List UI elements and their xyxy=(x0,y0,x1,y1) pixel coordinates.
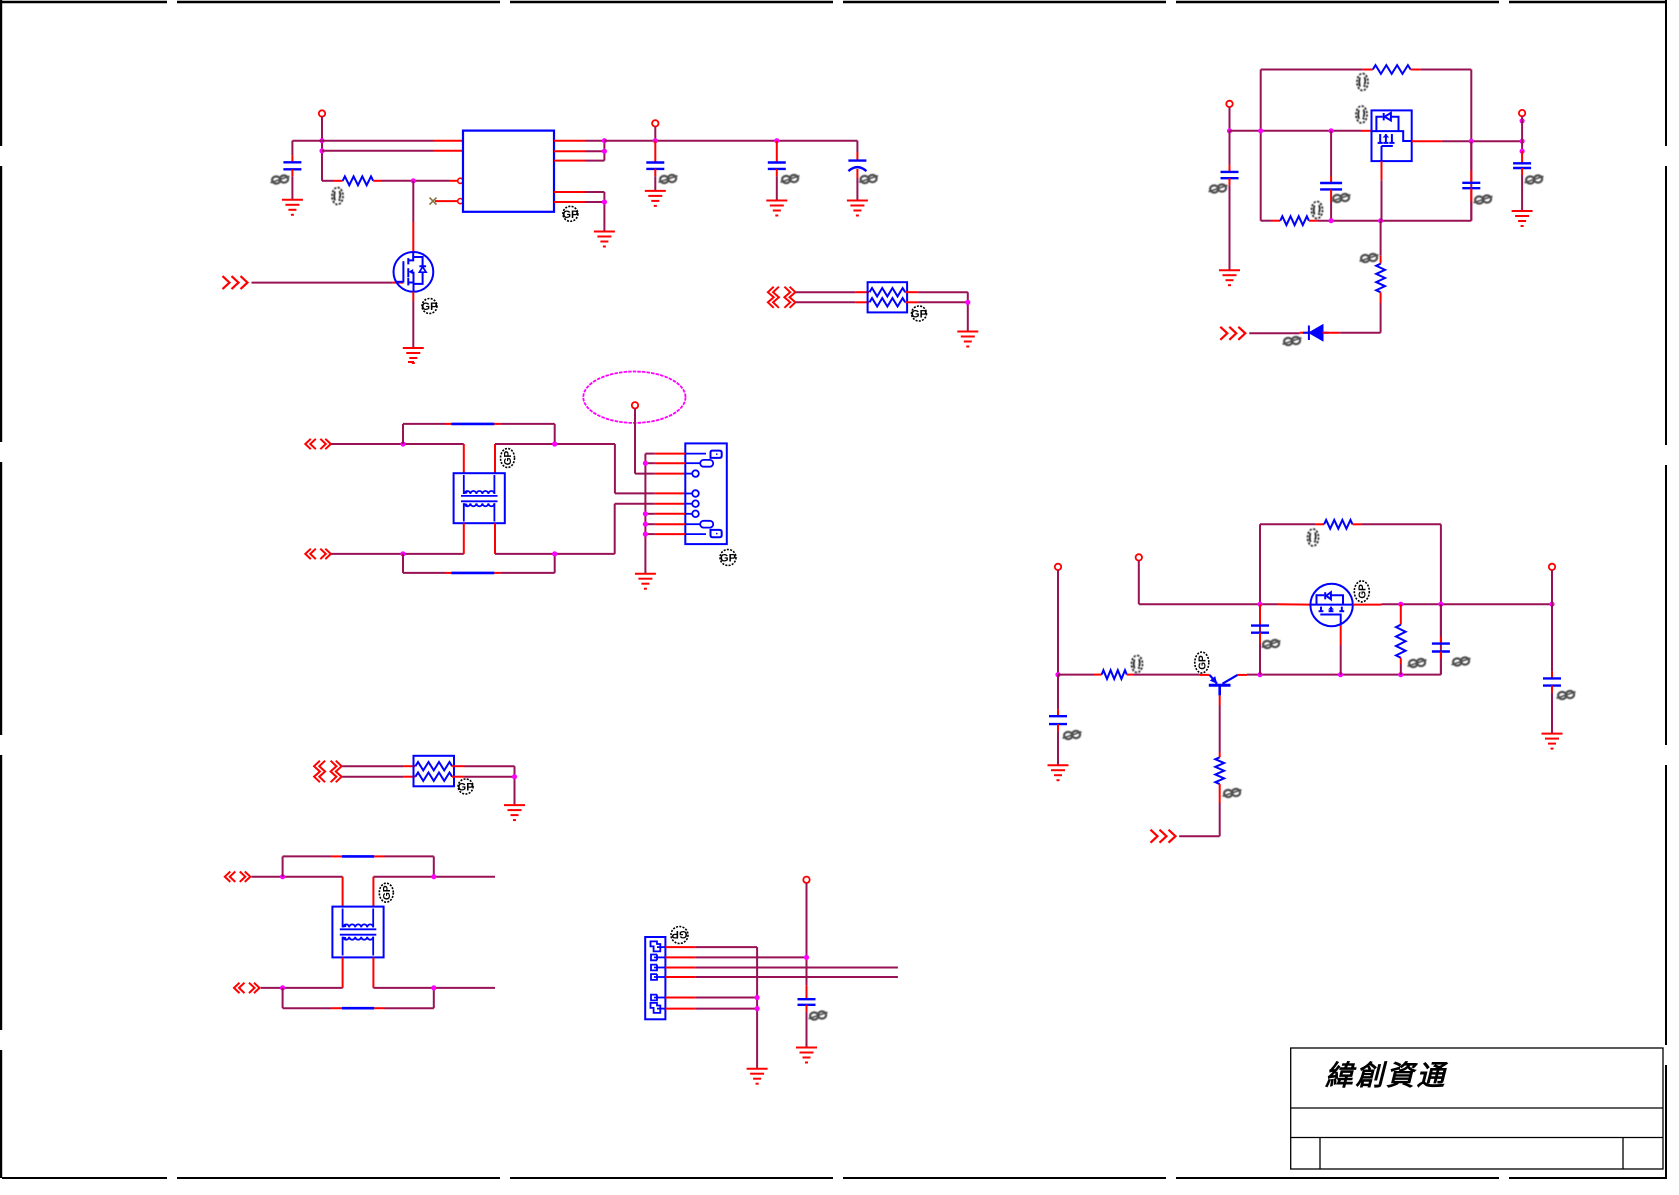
off-page pair «» upper xyxy=(305,439,331,449)
R5 left lead xyxy=(1094,674,1102,676)
junction lower bypass right xyxy=(552,551,557,556)
U1 pin lead xyxy=(554,160,585,162)
C5b top lead xyxy=(1330,176,1332,183)
capacitor C10 xyxy=(1543,678,1561,685)
wire to RN1 top xyxy=(796,291,856,293)
wire C7 to ground xyxy=(1521,175,1523,211)
F2 right lead xyxy=(494,572,500,574)
wire C2 to ground xyxy=(654,176,656,191)
U2 refdes smudge xyxy=(1356,106,1367,123)
connector J1 xyxy=(685,443,727,544)
F1 left lead xyxy=(445,423,451,425)
Q2 base lead xyxy=(1200,674,1210,676)
R6 refdes smudge xyxy=(1223,789,1242,797)
R7 right lead xyxy=(1353,523,1362,525)
Q3 source lead xyxy=(1340,626,1342,645)
power port P4 xyxy=(1519,110,1525,116)
ground bus vertical xyxy=(644,454,646,574)
wire to off-page xyxy=(1179,835,1220,837)
wire C12 to ground xyxy=(806,1012,808,1048)
J2 pin 3 lead xyxy=(665,967,695,969)
J1 pin 4 lead xyxy=(655,492,686,494)
ground below C2 xyxy=(645,191,666,206)
R1 left lead xyxy=(333,180,343,182)
wire port down to J1 pin 3 xyxy=(634,409,636,474)
transformer T2 xyxy=(332,907,383,958)
fuse F1 xyxy=(451,423,494,426)
R4 refdes smudge xyxy=(1360,254,1379,262)
wire J2 pin4 dangling xyxy=(696,976,898,978)
T2 windings xyxy=(340,909,377,956)
J2 pin 1 lead xyxy=(665,946,695,948)
T1 pin 1 lead xyxy=(463,444,465,473)
C6 top lead xyxy=(1470,171,1472,183)
U1 pin 4 lead with bubble xyxy=(435,200,458,202)
U2 internal body diode xyxy=(1372,113,1399,131)
R6 top lead xyxy=(1219,753,1221,758)
ground below C7 xyxy=(1512,211,1533,226)
Q1 drain lead xyxy=(412,222,414,253)
J1 pin 7 lead xyxy=(655,523,686,525)
C10 bottom lead xyxy=(1551,686,1553,693)
wire D1 to R4 xyxy=(1340,332,1380,334)
resistor pack RN1 xyxy=(868,282,908,312)
J2 contacts xyxy=(651,941,666,1013)
lower bypass riser left xyxy=(282,988,284,1008)
junction to C5b xyxy=(1329,128,1334,133)
wire U2 source to bottom rail xyxy=(1381,180,1383,220)
off-page input >>> H xyxy=(1151,830,1176,843)
C11 bottom lead xyxy=(1057,724,1059,731)
wire R5 to Q2 base xyxy=(1134,674,1200,676)
off-page dual connector to RN1 xyxy=(768,287,796,308)
wire down to J1 pin4 level xyxy=(614,444,616,493)
capacitor C3 xyxy=(768,163,786,169)
C2 top lead xyxy=(654,141,656,163)
fuse F3 xyxy=(342,855,374,858)
RN2 left leads xyxy=(403,765,415,767)
off-page pair «» F lower xyxy=(234,983,260,993)
R3 right lead xyxy=(1309,220,1318,222)
RN1 left leads xyxy=(856,291,869,293)
wire down to C1 xyxy=(291,141,293,155)
junction output net xyxy=(602,138,607,143)
wire P7 down to C10 xyxy=(1551,570,1553,671)
junction on second rail xyxy=(319,148,324,153)
T2 pin 1 lead xyxy=(342,877,344,907)
ground below C1 xyxy=(282,200,303,215)
bypass riser right xyxy=(554,424,556,444)
D1 cathode lead xyxy=(1300,332,1309,334)
junction C8 bottom xyxy=(1257,672,1262,677)
C12 top lead xyxy=(806,985,808,999)
wire to U1 pin 2 xyxy=(322,150,433,152)
wire J1 pin6 to bus xyxy=(645,513,654,515)
wire down to C6 xyxy=(1470,141,1472,171)
junction to C7 xyxy=(1520,149,1525,154)
R6 bottom lead xyxy=(1219,784,1221,803)
ground below U1 xyxy=(594,232,615,247)
right loop vertical xyxy=(1470,70,1472,221)
MOSFET Q3 xyxy=(1310,584,1352,626)
wire C6 down to bottom rail xyxy=(1470,202,1472,221)
lower wire to T2 pin 3 xyxy=(261,987,343,989)
upper wire right dangling xyxy=(373,876,495,878)
T1 pin 4 lead xyxy=(494,523,496,554)
capacitor C8 xyxy=(1251,626,1269,633)
R8 bottom lead xyxy=(1400,658,1402,664)
junction bus pin7 xyxy=(643,522,648,527)
C5b bottom lead xyxy=(1330,189,1332,202)
wire J2 pin3 dangling xyxy=(696,967,898,969)
sheet border left edge xyxy=(0,0,2,1178)
GP stamp near RN2 xyxy=(458,779,474,794)
resistor R7 xyxy=(1324,520,1352,529)
C7 bottom lead xyxy=(1521,168,1523,175)
C5 refdes smudge xyxy=(1209,184,1228,192)
upper wire to T2 pin 1 xyxy=(252,876,343,878)
lower wire to T1 pin 3 xyxy=(331,553,464,555)
junction bus pin8 xyxy=(643,532,648,537)
wire C10 to ground xyxy=(1551,693,1553,734)
wire RN2 top to corner xyxy=(465,765,515,767)
F4 left lead xyxy=(332,1007,342,1009)
wire C5 to ground xyxy=(1229,185,1231,270)
wire down to R4 xyxy=(1380,221,1382,256)
U1 gnd pin 2 lead xyxy=(554,201,585,203)
wire RN1 bottom to junction xyxy=(918,301,968,303)
GP stamp near J1 xyxy=(720,550,736,566)
GP stamp near Q1 xyxy=(422,299,438,314)
junction under P4 xyxy=(1520,118,1525,123)
MOSFET Q1 xyxy=(394,252,434,292)
wire down to Q1 xyxy=(412,181,414,222)
C6 refdes smudge xyxy=(1474,195,1493,203)
wire from P1 down xyxy=(321,117,323,181)
power port P5 xyxy=(1055,564,1061,570)
wire P4 down xyxy=(1521,116,1523,151)
C5 top lead xyxy=(1229,165,1231,172)
junction P3 net xyxy=(1227,128,1232,133)
U1 pin 2 lead xyxy=(433,150,463,152)
capacitor C5 xyxy=(1221,172,1239,178)
F2 left lead xyxy=(445,572,451,574)
bottom rail right xyxy=(1318,220,1471,222)
diode D1 xyxy=(1303,326,1329,341)
C4 top lead xyxy=(856,152,858,161)
wire down to C9 xyxy=(1440,604,1442,636)
junction R8 top xyxy=(1398,602,1403,607)
power port P7 xyxy=(1549,564,1555,570)
power port P2 xyxy=(652,120,658,126)
rotated GP stamp near Q3 xyxy=(1354,581,1369,602)
svg-text:GP: GP xyxy=(422,301,438,313)
wire J1 pin1 to bus xyxy=(645,453,654,455)
C10 top lead xyxy=(1551,671,1553,678)
U2 input lead xyxy=(1361,130,1372,132)
lower wire right dangling xyxy=(373,987,495,989)
R3 refdes smudge xyxy=(1312,202,1323,219)
wire to D1 anode xyxy=(1249,332,1300,334)
C8 refdes smudge xyxy=(1262,640,1281,648)
wire P2 to output rail xyxy=(654,127,656,141)
R2 left lead xyxy=(1363,69,1373,71)
wire P3 down xyxy=(1229,107,1231,131)
C3 top lead xyxy=(776,141,778,163)
resistor R2 xyxy=(1373,65,1411,74)
C1 top lead xyxy=(291,155,293,162)
T1 pin 2 lead xyxy=(494,444,496,473)
wire to J1 pin 4 xyxy=(615,492,655,494)
regulator IC U1 xyxy=(463,131,554,212)
junction C9 top xyxy=(1438,602,1443,607)
bypass rail left segment xyxy=(403,423,445,425)
wire J2 pin5 xyxy=(696,997,758,999)
svg-text:GP: GP xyxy=(672,928,688,940)
upper bypass riser left xyxy=(282,856,284,876)
wire to RN2 top xyxy=(342,765,403,767)
wire R8 down xyxy=(1400,664,1402,675)
Q2 emitter lead xyxy=(1238,674,1248,676)
GP stamp near J2 (rotated) xyxy=(671,927,688,944)
U2 output lead xyxy=(1412,140,1442,142)
lower bypass rail right xyxy=(501,572,555,574)
wire R6 down to corner xyxy=(1219,803,1221,836)
off-page dual connector to RN2 xyxy=(314,761,342,783)
C2 refdes smudge xyxy=(659,175,678,183)
sheet border bottom edge xyxy=(2,1177,1667,1179)
D1 anode lead xyxy=(1323,332,1341,334)
wire down to C5 xyxy=(1229,131,1231,165)
R2 right lead xyxy=(1411,69,1421,71)
junction sense net xyxy=(602,149,607,154)
wire J1 pin8 to bus xyxy=(645,533,654,535)
junction U2 source / R4 xyxy=(1378,218,1383,223)
wire J2 pin2 to port net xyxy=(696,956,807,958)
junction to lower bypass xyxy=(400,551,405,556)
wire P6 to Q3 gate xyxy=(1139,603,1277,605)
T1 primary winding xyxy=(461,475,498,522)
U2 internal MOSFET symbol xyxy=(1376,131,1411,161)
C1 bottom lead xyxy=(291,169,293,176)
J1 pin 5 lead xyxy=(655,503,686,505)
ground below J1 bus xyxy=(635,574,656,589)
C11 refdes smudge xyxy=(1063,731,1082,739)
wire R4 to D1 xyxy=(1380,303,1382,333)
R2 refdes smudge xyxy=(1357,74,1368,91)
junction lower bypass right xyxy=(431,985,436,990)
fuse F4 xyxy=(342,1007,374,1010)
R1 right lead xyxy=(373,180,381,182)
resistor R1 xyxy=(343,176,374,185)
R4 top lead xyxy=(1380,256,1382,264)
off-page pair «» lower xyxy=(305,549,331,559)
wire down to C5b xyxy=(1330,131,1332,176)
ground below RN2 xyxy=(504,805,525,820)
capacitor C1 xyxy=(283,162,301,169)
junction output / C6 xyxy=(1469,139,1474,144)
lower bypass riser right xyxy=(554,554,556,573)
wire to J1 pin 3 xyxy=(635,473,655,475)
wire C11 to ground xyxy=(1057,731,1059,765)
capacitor C6 xyxy=(1462,183,1480,188)
C6 bottom lead xyxy=(1470,188,1472,201)
junction to upper bypass xyxy=(280,874,285,879)
C9 bottom lead xyxy=(1440,652,1442,659)
T2 pin 3 lead xyxy=(342,957,344,988)
svg-text:GP: GP xyxy=(458,782,474,794)
wire C3 to ground xyxy=(776,176,778,200)
wire C8 down xyxy=(1259,644,1261,675)
ground below C12 xyxy=(796,1048,817,1063)
C9 top lead xyxy=(1440,637,1442,644)
rotated GP stamp near T1 xyxy=(501,449,515,468)
U1 output pin lead xyxy=(554,140,585,142)
bypass rail right segment xyxy=(501,423,555,425)
wire Q3 drain right xyxy=(1382,603,1553,605)
svg-text:GP: GP xyxy=(382,885,393,900)
wire to RN2 bottom xyxy=(342,776,403,778)
wire P6 down xyxy=(1138,561,1140,605)
U1 pin 1 lead xyxy=(433,140,463,142)
RN2 element 1 xyxy=(415,762,452,770)
C3 bottom lead xyxy=(776,169,778,176)
junction to bypass rail xyxy=(400,441,405,446)
connector J2 xyxy=(645,937,665,1019)
Q1 source lead xyxy=(412,292,414,301)
wire Q3 source down xyxy=(1340,645,1342,675)
wire down to C11 xyxy=(1057,675,1059,710)
D1 refdes smudge xyxy=(1283,337,1302,345)
Q3 gate lead xyxy=(1277,603,1311,605)
port inside ellipse xyxy=(632,402,638,408)
off-page pair «» F upper xyxy=(225,872,251,882)
capacitor C2 xyxy=(646,163,664,169)
ground bus vertical J2 xyxy=(756,947,758,1069)
wire to R5 xyxy=(1058,674,1094,676)
U1 sense pin lead xyxy=(554,150,585,152)
upper bypass rail right xyxy=(385,855,434,857)
load switch MOSFET U2 xyxy=(1372,110,1412,161)
junction P5 net xyxy=(1055,672,1060,677)
svg-text:GP: GP xyxy=(1197,655,1208,670)
R1 refdes smudge xyxy=(332,188,343,205)
wire RN2 bottom to junction xyxy=(465,776,515,778)
J1 pin 2 lead xyxy=(655,462,686,464)
T2 pin 4 lead xyxy=(372,957,374,988)
T1 pin 3 lead xyxy=(463,523,465,554)
junction to feedback rail xyxy=(1258,128,1263,133)
wire Q1 source to ground xyxy=(412,301,414,348)
U1 gnd pin lead xyxy=(554,191,585,193)
J2 pin 5 lead xyxy=(665,997,695,999)
GP stamp near U1 xyxy=(562,206,578,221)
wire R1 to U1 pin 3 xyxy=(381,180,450,182)
C12 bottom lead xyxy=(806,1005,808,1012)
wire pin up to output net xyxy=(585,160,604,162)
junction output / P4 xyxy=(1520,139,1525,144)
top rail left H xyxy=(1260,523,1315,525)
svg-text:GP: GP xyxy=(720,553,736,565)
U2 source lead xyxy=(1381,161,1383,180)
ground below Q1 xyxy=(403,348,424,363)
rotated GP stamp near Q2 xyxy=(1195,652,1209,673)
junction bus pin5 xyxy=(755,995,760,1000)
ground below J2 bus xyxy=(747,1069,768,1084)
wire U2 output right xyxy=(1442,140,1522,142)
junction at C3 xyxy=(774,138,779,143)
capacitor C9 xyxy=(1432,644,1450,652)
stray red tick xyxy=(408,361,414,363)
J1 pin 3 lead xyxy=(655,473,686,475)
RN1 element 2 xyxy=(870,298,906,306)
C9 refdes smudge xyxy=(1452,657,1471,665)
resistor R8 xyxy=(1396,625,1406,658)
ground below RN1 xyxy=(957,332,978,347)
RN1 right leads xyxy=(905,291,918,293)
sheet border top edge xyxy=(0,1,1667,3)
C8 bottom lead xyxy=(1259,633,1261,644)
J1 pin 8 lead xyxy=(655,533,686,535)
lower bypass riser right xyxy=(433,988,435,1008)
wire P5 down xyxy=(1057,570,1059,675)
bypass riser left xyxy=(402,424,404,444)
junction bus pin6 xyxy=(643,511,648,516)
wire to J1 pin 5 xyxy=(615,503,655,505)
C1 refdes smudge xyxy=(271,175,290,183)
R7 refdes smudge xyxy=(1308,529,1319,546)
junction C8 top xyxy=(1257,602,1262,607)
ground below C4 xyxy=(847,201,868,216)
polarized capacitor C4 xyxy=(848,161,866,172)
sheet border right edge xyxy=(1665,0,1667,1178)
svg-text:GP: GP xyxy=(503,450,514,465)
resistor R4 xyxy=(1376,264,1385,293)
wire C1 to ground xyxy=(291,176,293,200)
wire J2 pin6 xyxy=(696,1008,758,1010)
right loop vertical H xyxy=(1440,524,1442,674)
C11 top lead xyxy=(1057,709,1059,716)
C5 bottom lead xyxy=(1229,178,1231,185)
wire J2 pin1 xyxy=(696,946,758,948)
wire down to ground xyxy=(514,766,516,805)
off-page input >>> to Q1 gate xyxy=(223,276,248,289)
wire J1 pin2 to bus xyxy=(645,462,654,464)
ground below C11 xyxy=(1048,765,1069,780)
RN2 element 2 xyxy=(415,773,452,781)
power port P8 xyxy=(803,877,809,883)
C12 refdes smudge xyxy=(809,1011,828,1019)
feedback rail right xyxy=(1421,69,1472,71)
wire C9 down xyxy=(1440,659,1442,675)
lower wire to J1 pin 5 xyxy=(495,553,615,555)
wire U1 ground pins down xyxy=(603,192,605,232)
wire C5b to bottom rail xyxy=(1330,202,1332,221)
fuse F2 xyxy=(451,572,494,575)
C4 refdes smudge xyxy=(859,175,878,183)
power port P3 xyxy=(1226,101,1232,107)
capacitor C11 xyxy=(1049,716,1067,724)
feedback rail left xyxy=(1261,69,1363,71)
C5b refdes smudge xyxy=(1332,194,1351,202)
capacitor C5b xyxy=(1320,183,1342,189)
resistor pack RN2 xyxy=(414,756,455,787)
resistor R6 xyxy=(1215,757,1224,784)
R7 left lead xyxy=(1315,523,1324,525)
R5 right lead xyxy=(1127,674,1134,676)
emitter rail xyxy=(1247,674,1441,676)
wire corner to R1 xyxy=(322,180,333,182)
